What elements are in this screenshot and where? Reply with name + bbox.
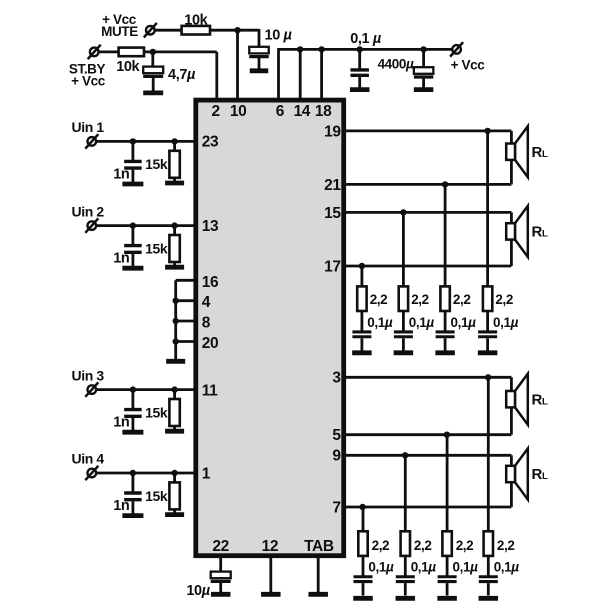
wire IC pin 5 to speaker LS3 - xyxy=(344,433,511,436)
svg-text:4: 4 xyxy=(202,294,211,311)
wire IC pin 22 to cap 10u xyxy=(219,556,222,572)
capacitor 1n ch4 xyxy=(124,493,141,500)
wire pin drop to zobel R 2 (top group) xyxy=(402,212,405,287)
wire zobel cap to ground top 2 xyxy=(402,338,405,350)
label Uin 3 xyxy=(72,367,105,383)
resistor 15k ch2 xyxy=(169,235,179,262)
svg-text:2,2: 2,2 xyxy=(414,538,432,553)
pin 14 label (top) xyxy=(294,103,311,120)
label ST.BY xyxy=(69,62,106,77)
svg-text:21: 21 xyxy=(324,177,341,194)
ground (zobel bottom 4) xyxy=(479,596,499,601)
wire rail to IC pin 18 xyxy=(320,49,323,102)
label 1n ch1 xyxy=(113,166,129,182)
ground (4,7u stby cap) xyxy=(143,91,163,96)
label 2,2 zobel top 1 xyxy=(370,292,388,307)
wire pin drop to zobel R 4 (top group) xyxy=(486,131,489,288)
label 0,1µ zobel top 3 xyxy=(451,315,477,330)
junction rail / 4400u cap xyxy=(420,46,426,52)
svg-text:15k: 15k xyxy=(145,156,168,172)
label 15k ch3 xyxy=(145,404,168,420)
resistor 15k ch1 xyxy=(169,151,179,178)
wire pin drop to zobel R 3 (bottom group) xyxy=(446,435,449,533)
resistor 2,2 zobel bottom 3 xyxy=(442,531,451,556)
label Uin 4 xyxy=(72,451,105,467)
junction bus / pin 8 xyxy=(173,318,179,324)
pin 21 label (right) xyxy=(324,177,341,194)
wire node to 1n cap ch3 xyxy=(131,390,134,409)
svg-text:7: 7 xyxy=(332,499,340,516)
label 15k ch4 xyxy=(145,488,168,504)
wire zobel cap to ground bottom 4 xyxy=(487,583,490,595)
resistor 10k (ST.BY) xyxy=(119,48,144,57)
svg-text:2,2: 2,2 xyxy=(497,538,515,553)
capacitor 0,1u zobel top 2 xyxy=(394,332,413,337)
wire rail to IC pin 14 xyxy=(299,49,302,102)
capacitor 1n ch3 xyxy=(124,410,141,417)
svg-text:0,1µ: 0,1µ xyxy=(494,560,520,575)
pin 7 label (right) xyxy=(332,499,340,516)
svg-text:Uin 4: Uin 4 xyxy=(72,451,105,467)
wire speaker LS3 + drop xyxy=(510,377,513,391)
op-amp IC U1 (quad power amplifier) body xyxy=(196,100,344,556)
pin 16 label (left) xyxy=(202,274,219,291)
resistor 2,2 zobel top 3 xyxy=(440,286,449,311)
ground (0,1u rail cap) xyxy=(350,87,370,92)
speaker LS1 (RL) xyxy=(506,126,528,177)
wire pin drop to zobel R 2 (bottom group) xyxy=(404,455,407,532)
svg-text:2,2: 2,2 xyxy=(495,292,513,307)
terminal Uin 3 input xyxy=(85,382,98,396)
wire cap 10u to ground xyxy=(258,58,261,69)
junction Uin 2 / 15k xyxy=(171,222,177,228)
label 1n ch2 xyxy=(113,251,129,267)
capacitor 10u (pin 22) xyxy=(211,572,231,582)
terminal ST.BY input xyxy=(88,45,101,59)
wire 1n cap to ground ch4 xyxy=(131,501,134,514)
wire IC TAB to ground xyxy=(317,556,320,592)
ground (1n cap ch1) xyxy=(122,182,143,187)
wire pin drop to zobel R 1 (top group) xyxy=(360,266,363,288)
wire bus pins 16-4-8-20 to ground xyxy=(174,280,177,359)
wire zobel R to cap bottom 4 xyxy=(487,556,490,576)
wire 1n cap to ground ch1 xyxy=(131,170,134,183)
wire cap 10u pin22 to ground xyxy=(219,582,222,592)
resistor 2,2 zobel top 1 xyxy=(357,286,366,311)
label 4,7µ xyxy=(168,67,196,83)
wire IC pin 7 to speaker LS4 - xyxy=(344,506,511,509)
junction rail / 0,1u cap xyxy=(357,46,363,52)
resistor 2,2 zobel top 2 xyxy=(399,286,408,311)
junction Uin 1 / 15k xyxy=(171,138,177,144)
pin 6 label (top) xyxy=(276,103,285,120)
svg-text:14: 14 xyxy=(294,103,311,120)
svg-text:11: 11 xyxy=(202,382,218,399)
wire speaker LS2 - rise xyxy=(510,240,513,266)
capacitor 0,1u (rail) xyxy=(350,70,369,75)
svg-text:10µ: 10µ xyxy=(186,583,210,599)
ground (zobel bottom 1) xyxy=(353,596,373,601)
resistor 2,2 zobel bottom 4 xyxy=(484,531,493,556)
svg-text:2,2: 2,2 xyxy=(372,538,390,553)
wire cap 4400u to ground xyxy=(422,78,425,88)
svg-text:5: 5 xyxy=(332,427,341,444)
junction pin 19 / zobel xyxy=(484,128,490,134)
wire node to 1n cap ch2 xyxy=(131,226,134,245)
speaker LS4 (RL) xyxy=(506,449,528,500)
svg-text:+ Vcc: + Vcc xyxy=(71,74,106,89)
label 0,1µ zobel top 1 xyxy=(367,315,393,330)
svg-text:8: 8 xyxy=(202,314,211,331)
capacitor 0,1u zobel top 1 xyxy=(352,332,371,337)
ground (1n cap ch3) xyxy=(122,430,143,435)
wire Uin 3 input to IC pin 11 xyxy=(96,388,196,391)
junction pin 15 / zobel xyxy=(400,209,406,215)
svg-text:20: 20 xyxy=(202,335,218,352)
svg-text:16: 16 xyxy=(202,274,219,291)
wire ST.BY terminal to R 10k xyxy=(99,51,120,54)
svg-text:22: 22 xyxy=(212,538,228,555)
wire IC pin 21 to speaker LS1 - xyxy=(344,183,511,186)
wire Vcc rail horizontal xyxy=(279,48,452,51)
wire speaker LS3 - rise xyxy=(510,408,513,435)
pin 10 label (top) xyxy=(230,103,246,120)
ground (zobel top 1) xyxy=(352,350,372,355)
svg-text:0,1µ: 0,1µ xyxy=(368,560,394,575)
resistor 15k ch3 xyxy=(169,399,179,426)
ground (1n cap ch4) xyxy=(122,513,143,518)
wire speaker LS1 + drop xyxy=(510,131,513,144)
svg-text:0,1µ: 0,1µ xyxy=(493,315,519,330)
junction Uin 2 / 1n cap xyxy=(130,222,136,228)
resistor 2,2 zobel bottom 1 xyxy=(358,531,367,556)
label 2,2 zobel top 3 xyxy=(453,292,471,307)
pin 4 label (left) xyxy=(202,294,211,311)
label 10µ (pin 22 cap) xyxy=(186,583,210,599)
svg-text:0,1µ: 0,1µ xyxy=(367,315,393,330)
label 2,2 zobel top 4 xyxy=(495,292,513,307)
wire zobel R to cap bottom 3 xyxy=(446,556,449,576)
resistor 10k (MUTE) xyxy=(182,26,210,35)
ground (pins 16/4/8/20 bus) xyxy=(166,359,185,364)
junction Uin 4 / 15k xyxy=(171,470,177,476)
ground (pin 22 cap) xyxy=(211,592,231,597)
wire Uin 2 input to IC pin 13 xyxy=(96,224,196,227)
wire down to IC pin 2 xyxy=(215,52,218,102)
wire speaker LS4 + drop xyxy=(510,455,513,465)
junction pin 3 / zobel xyxy=(485,374,491,380)
label RL (LS3) xyxy=(532,391,548,408)
wire 15k to ground ch3 xyxy=(173,426,176,430)
capacitor 0,1u zobel top 3 xyxy=(436,332,455,337)
svg-text:2,2: 2,2 xyxy=(456,538,474,553)
pin 11 label (left) xyxy=(202,382,218,399)
capacitor 10u (mute filter) xyxy=(249,47,269,57)
pin 15 label (right) xyxy=(324,205,341,222)
resistor 15k ch4 xyxy=(169,482,179,509)
wire zobel cap to ground top 1 xyxy=(360,338,363,350)
label 1n ch4 xyxy=(113,498,129,514)
svg-text:1n: 1n xyxy=(113,166,129,182)
capacitor 4,7u (stby filter) xyxy=(143,67,163,77)
wire rail to cap 4400u xyxy=(422,49,425,67)
junction bus / pin 4 xyxy=(173,298,179,304)
ground (15k ch3) xyxy=(165,429,184,434)
ground (zobel top 2) xyxy=(394,350,414,355)
terminal + Vcc supply xyxy=(450,42,463,56)
wire cap 0,1u to ground xyxy=(358,77,361,88)
svg-text:23: 23 xyxy=(202,134,219,151)
svg-text:9: 9 xyxy=(332,448,341,465)
label Uin 2 xyxy=(72,203,105,219)
label 2,2 zobel bottom 1 xyxy=(372,538,390,553)
junction Uin 1 / 1n cap xyxy=(130,138,136,144)
label Uin 1 xyxy=(72,119,105,135)
wire IC pin 12 to ground xyxy=(269,556,272,592)
label 10 µ xyxy=(265,27,293,43)
wire zobel cap to ground bottom 3 xyxy=(446,583,449,595)
pin 8 label (left) xyxy=(202,314,211,331)
wire MUTE terminal to R 10k xyxy=(155,29,182,32)
junction node pin 10 / mute xyxy=(234,27,240,33)
label 0,1µ zobel bottom 1 xyxy=(368,560,394,575)
junction pin 17 / zobel xyxy=(359,263,365,269)
ground (15k ch2) xyxy=(165,265,184,270)
wire node to 15k ch3 xyxy=(173,390,176,400)
ground (pin 12) xyxy=(261,592,281,597)
wire speaker LS1 - rise xyxy=(510,160,513,184)
wire zobel cap to ground top 4 xyxy=(486,338,489,350)
terminal MUTE input xyxy=(144,23,157,37)
pin 23 label (left) xyxy=(202,134,219,151)
wire zobel cap to ground bottom 2 xyxy=(404,583,407,595)
junction Uin 4 / 1n cap xyxy=(130,470,136,476)
wire cap 4u7 to ground xyxy=(152,78,155,92)
wire 15k to ground ch4 xyxy=(173,509,176,513)
wire IC pin 19 to speaker LS1 + xyxy=(344,129,511,132)
svg-text:MUTE: MUTE xyxy=(101,24,138,39)
ground (zobel top 4) xyxy=(478,350,498,355)
wire R 10k to IC pin 2 horizontal xyxy=(144,51,217,54)
label + Vcc (mute input) xyxy=(102,12,137,27)
pin 13 label (left) xyxy=(202,218,219,235)
label 4400µ xyxy=(378,56,414,71)
label 15k ch1 xyxy=(145,156,168,172)
ground (15k ch4) xyxy=(165,512,184,517)
wire 1n cap to ground ch2 xyxy=(131,254,134,267)
pin TAB label (bottom) xyxy=(304,538,334,555)
wire zobel R to cap top 3 xyxy=(444,311,447,331)
label RL (LS4) xyxy=(532,466,548,483)
svg-text:2,2: 2,2 xyxy=(411,292,429,307)
ground (10u mute cap) xyxy=(250,68,269,73)
ground (zobel top 3) xyxy=(435,350,455,355)
wire 15k to ground ch1 xyxy=(173,178,176,182)
capacitor 0,1u zobel bottom 2 xyxy=(396,577,415,582)
label 2,2 zobel bottom 4 xyxy=(497,538,515,553)
svg-text:15k: 15k xyxy=(145,404,168,420)
svg-text:13: 13 xyxy=(202,218,219,235)
speaker LS2 (RL) xyxy=(506,206,528,257)
wire IC pin 9 to speaker LS4 + xyxy=(344,454,511,457)
capacitor 1n ch2 xyxy=(124,246,141,253)
wire IC pin 20 stub xyxy=(176,340,196,343)
junction rail / pin 18 xyxy=(318,46,324,52)
wire Uin 1 input to IC pin 23 xyxy=(96,140,196,143)
wire R 10k to 10u cap corner xyxy=(210,29,259,32)
svg-text:17: 17 xyxy=(324,258,340,275)
pin 5 label (right) xyxy=(332,427,341,444)
svg-text:10 µ: 10 µ xyxy=(265,27,293,43)
capacitor 0,1u zobel bottom 3 xyxy=(438,577,457,582)
junction rail / pin 14 xyxy=(297,46,303,52)
speaker LS3 (RL) xyxy=(506,374,528,425)
svg-text:1n: 1n xyxy=(113,415,129,431)
svg-text:2,2: 2,2 xyxy=(370,292,388,307)
pin 20 label (left) xyxy=(202,335,218,352)
label + Vcc (supply) xyxy=(451,58,486,73)
pin 3 label (right) xyxy=(332,370,341,387)
wire IC pin 4 stub xyxy=(176,299,196,302)
label 2,2 zobel bottom 3 xyxy=(456,538,474,553)
svg-text:18: 18 xyxy=(315,103,332,120)
wire down to cap 10u xyxy=(258,29,261,47)
capacitor 0,1u zobel top 4 xyxy=(478,332,497,337)
svg-text:Uin 1: Uin 1 xyxy=(72,119,105,135)
capacitor 0,1u zobel bottom 4 xyxy=(479,577,498,582)
label 0,1µ zobel bottom 2 xyxy=(411,560,437,575)
ground (zobel bottom 3) xyxy=(437,596,457,601)
label 0,1 µ (rail cap) xyxy=(350,31,382,47)
wire node to 15k ch2 xyxy=(173,226,176,236)
ground (TAB) xyxy=(308,592,328,597)
label 2,2 zobel bottom 2 xyxy=(414,538,432,553)
svg-text:4400µ: 4400µ xyxy=(378,56,414,71)
wire pin drop to zobel R 3 (top group) xyxy=(444,184,447,287)
junction bus / pin 20 xyxy=(173,338,179,344)
junction pin 5 / zobel xyxy=(444,432,450,438)
junction Uin 3 / 15k xyxy=(171,386,177,392)
wire rail to cap 0,1u xyxy=(358,49,361,69)
label 10k (ST.BY resistor) xyxy=(116,59,140,75)
svg-text:3: 3 xyxy=(332,370,341,387)
junction node pin 2 / stby xyxy=(150,49,156,55)
wire zobel R to cap top 4 xyxy=(486,311,489,331)
label 0,1µ zobel bottom 4 xyxy=(494,560,520,575)
wire 15k to ground ch2 xyxy=(173,262,176,266)
wire IC pin 17 to speaker LS2 - xyxy=(344,265,511,268)
junction pin 9 / zobel xyxy=(402,452,408,458)
svg-text:0,1µ: 0,1µ xyxy=(411,560,437,575)
wire 1n cap to ground ch3 xyxy=(131,418,134,431)
capacitor 4400u (reservoir) xyxy=(414,67,434,77)
svg-text:15k: 15k xyxy=(145,488,168,504)
pin 9 label (right) xyxy=(332,448,341,465)
svg-text:10k: 10k xyxy=(184,13,208,29)
ground (15k ch1) xyxy=(165,181,184,186)
svg-text:6: 6 xyxy=(276,103,285,120)
pin 22 label (bottom) xyxy=(212,538,228,555)
wire node to 15k ch4 xyxy=(173,473,176,483)
label 0,1µ zobel top 4 xyxy=(493,315,519,330)
label MUTE xyxy=(101,24,138,39)
svg-text:0,1µ: 0,1µ xyxy=(451,315,477,330)
wire zobel R to cap top 1 xyxy=(360,311,363,331)
wire pin drop to zobel R 4 (bottom group) xyxy=(487,377,490,532)
svg-text:0,1µ: 0,1µ xyxy=(409,315,435,330)
svg-text:1: 1 xyxy=(202,466,211,483)
svg-text:0,1µ: 0,1µ xyxy=(453,560,479,575)
svg-text:1n: 1n xyxy=(113,251,129,267)
terminal Uin 2 input xyxy=(85,218,98,232)
label RL (LS1) xyxy=(532,144,548,161)
resistor 2,2 zobel bottom 2 xyxy=(401,531,410,556)
wire node to 1n cap ch1 xyxy=(131,141,134,160)
wire zobel cap to ground bottom 1 xyxy=(362,583,365,595)
ground (zobel bottom 2) xyxy=(396,596,416,601)
junction pin 7 / zobel xyxy=(359,504,365,510)
pin 1 label (left) xyxy=(202,466,211,483)
junction Uin 3 / 1n cap xyxy=(130,386,136,392)
label 2,2 zobel top 2 xyxy=(411,292,429,307)
svg-text:0,1 µ: 0,1 µ xyxy=(350,31,382,47)
label 10k (MUTE resistor) xyxy=(184,13,208,29)
label 1n ch3 xyxy=(113,415,129,431)
pin 17 label (right) xyxy=(324,258,340,275)
wire speaker LS4 - rise xyxy=(510,482,513,507)
pin 2 label (top) xyxy=(211,103,219,120)
svg-text:Uin 2: Uin 2 xyxy=(72,203,105,219)
svg-text:19: 19 xyxy=(324,123,341,140)
svg-text:2: 2 xyxy=(211,103,219,120)
terminal Uin 1 input xyxy=(85,134,98,148)
label 15k ch2 xyxy=(145,240,168,256)
wire IC pin 8 stub xyxy=(176,320,196,323)
capacitor 0,1u zobel bottom 1 xyxy=(354,577,373,582)
wire IC pin 15 to speaker LS2 + xyxy=(344,211,511,214)
pin 12 label (bottom) xyxy=(262,538,278,555)
svg-text:10: 10 xyxy=(230,103,246,120)
wire speaker LS2 + drop xyxy=(510,212,513,223)
junction pin 21 / zobel xyxy=(442,181,448,187)
wire zobel R to cap bottom 2 xyxy=(404,556,407,576)
label 0,1µ zobel bottom 3 xyxy=(453,560,479,575)
wire pin drop to zobel R 1 (bottom group) xyxy=(362,507,365,532)
svg-text:10k: 10k xyxy=(116,59,140,75)
resistor 2,2 zobel top 4 xyxy=(483,286,492,311)
svg-text:15k: 15k xyxy=(145,240,168,256)
wire node to 1n cap ch4 xyxy=(131,473,134,492)
wire node to cap 4u7 xyxy=(151,52,154,67)
capacitor 1n ch1 xyxy=(124,161,141,168)
wire rail to IC pin 6 xyxy=(277,48,280,102)
wire zobel R to cap bottom 1 xyxy=(362,556,365,576)
svg-text:12: 12 xyxy=(262,538,278,555)
terminal Uin 4 input xyxy=(85,466,98,480)
wire zobel cap to ground top 3 xyxy=(444,338,447,350)
wire zobel R to cap top 2 xyxy=(402,311,405,331)
wire IC pin 3 to speaker LS3 + xyxy=(344,376,511,379)
ground (1n cap ch2) xyxy=(122,266,143,271)
label 0,1µ zobel top 2 xyxy=(409,315,435,330)
svg-text:15: 15 xyxy=(324,205,341,222)
label RL (LS2) xyxy=(532,224,548,241)
wire node to IC pin 10 xyxy=(236,30,239,102)
wire Uin 4 input to IC pin 1 xyxy=(96,472,196,475)
svg-text:TAB: TAB xyxy=(304,538,334,555)
svg-text:2,2: 2,2 xyxy=(453,292,471,307)
label + Vcc (stby input) xyxy=(71,74,106,89)
